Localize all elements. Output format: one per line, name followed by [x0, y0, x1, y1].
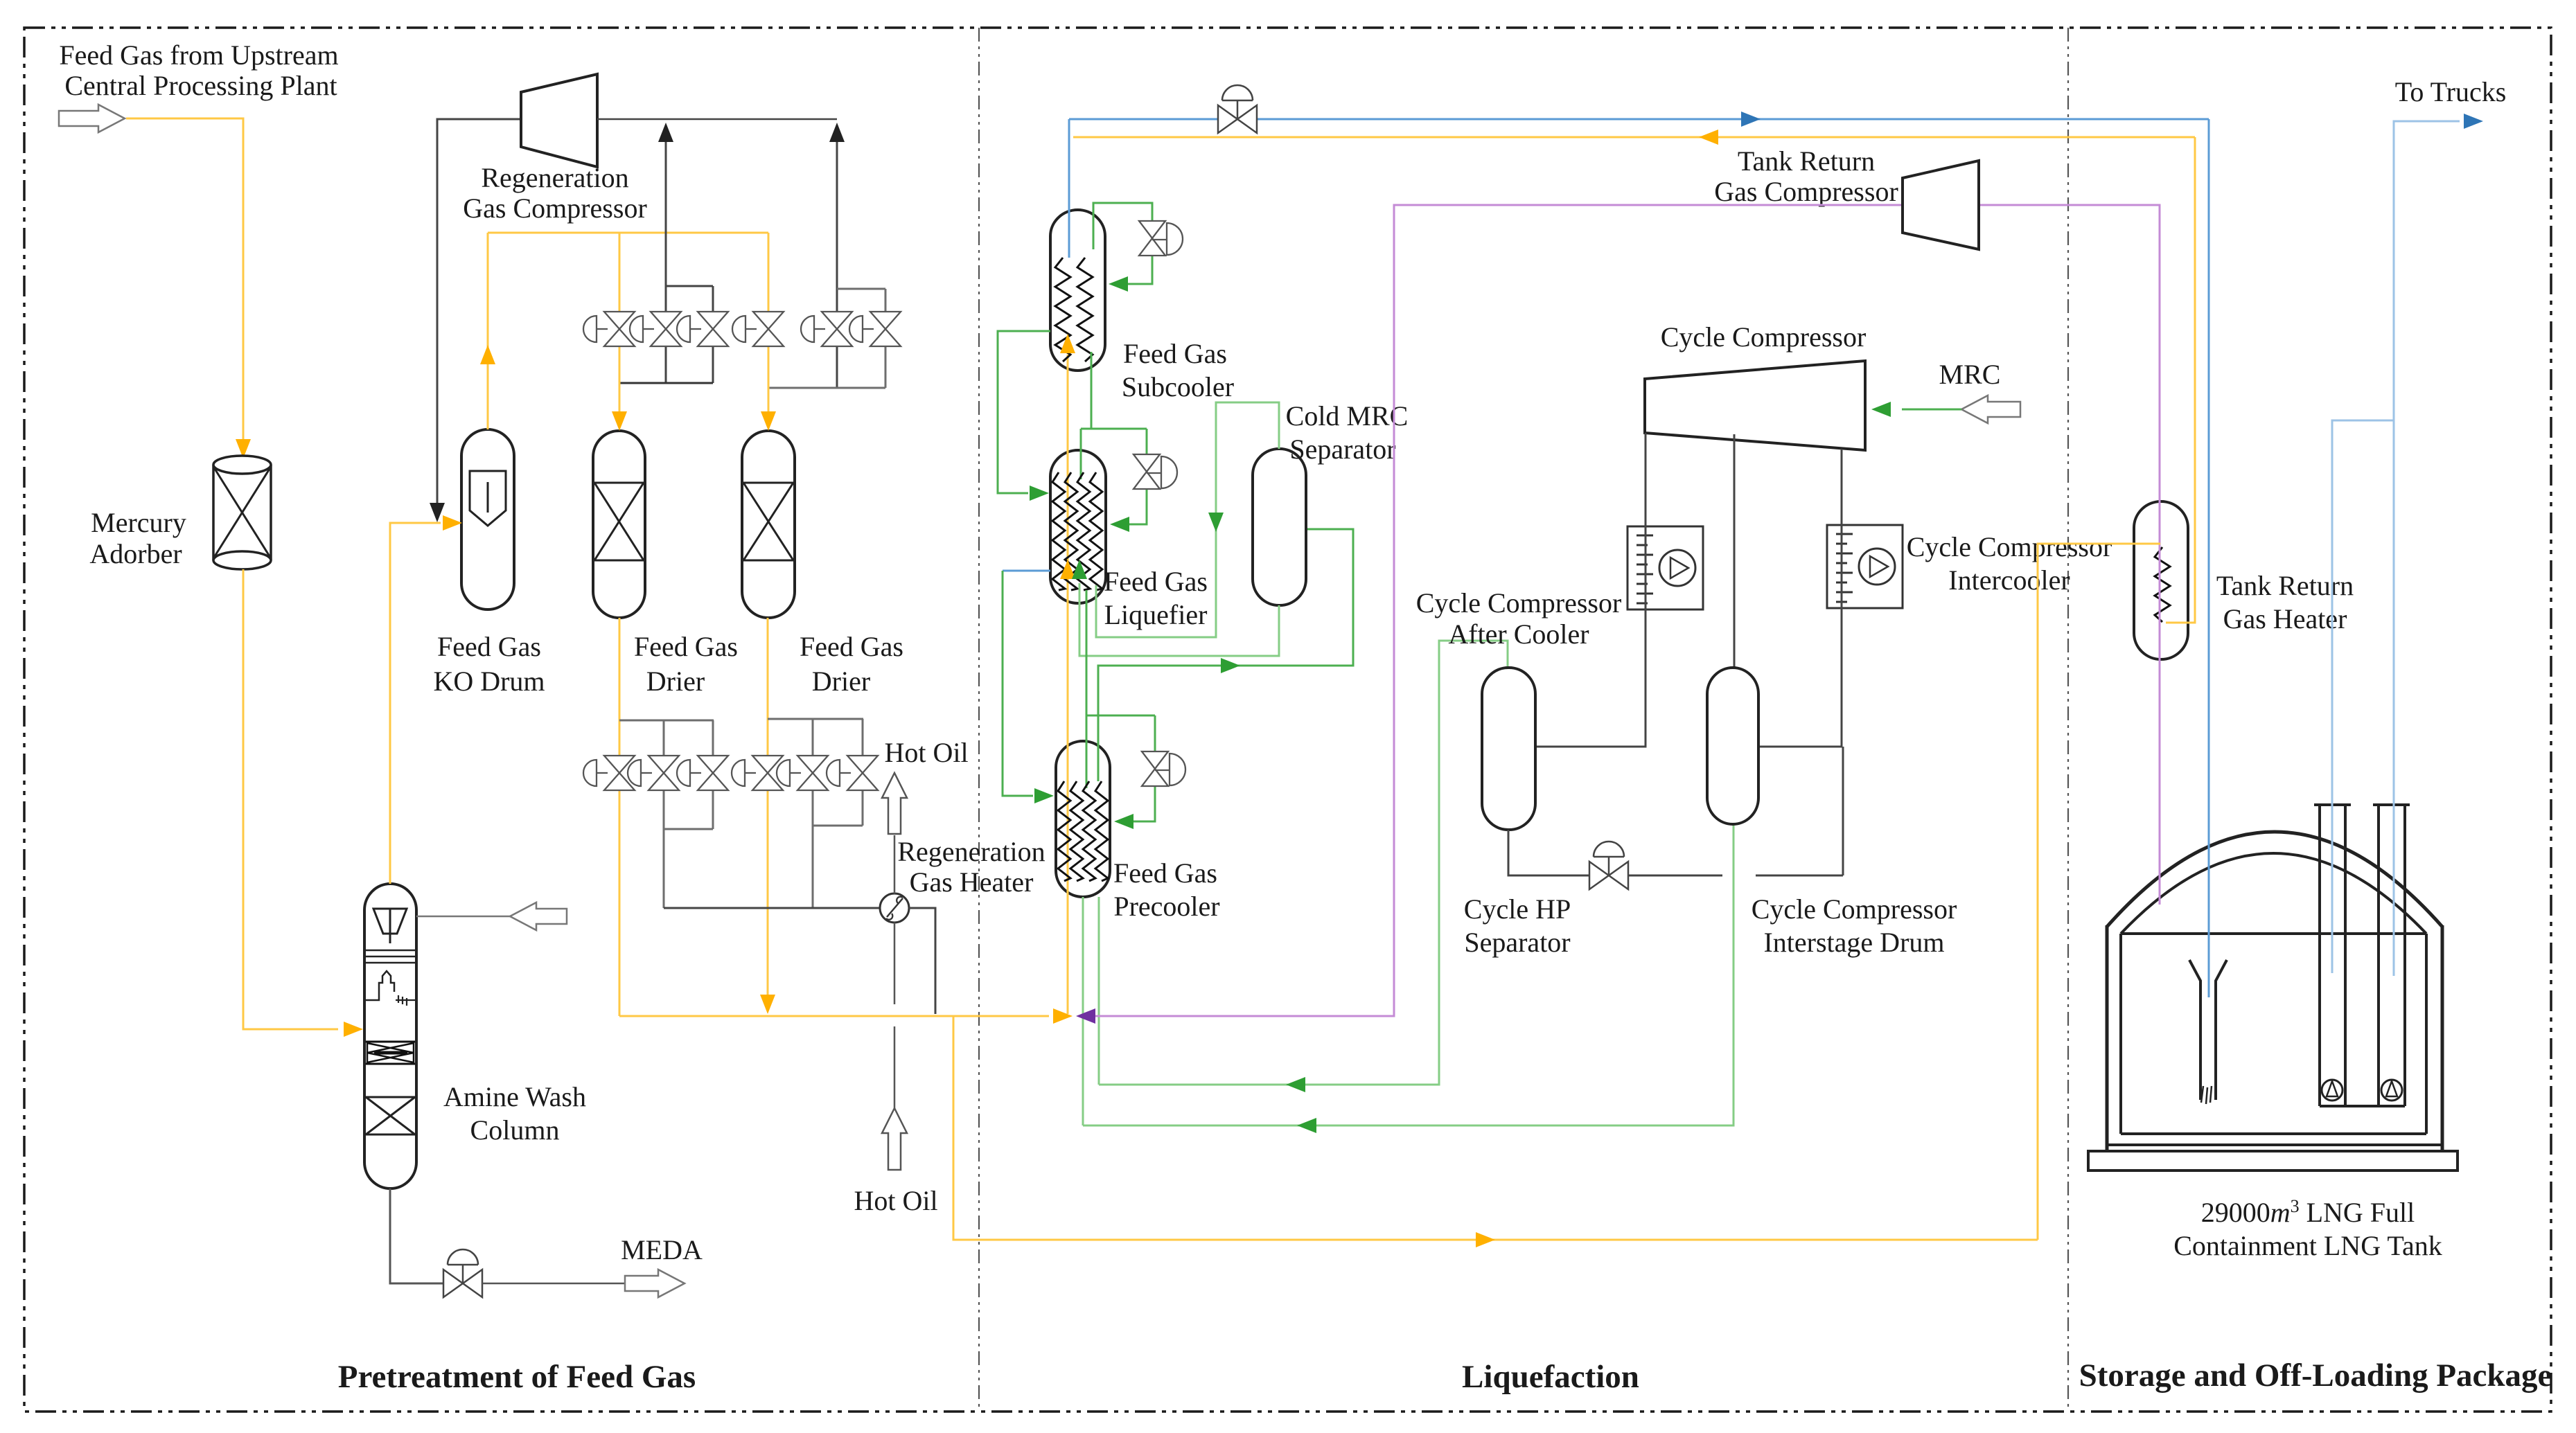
wire: regen gas to heater coil (yellow)	[2038, 544, 2160, 1240]
wire: compressor suction header (black)	[597, 118, 837, 121]
wire: heated return gas riser (yellow)	[2166, 137, 2195, 623]
svg-text:Adorber: Adorber	[89, 538, 182, 569]
hot oil supply hollow arrow	[882, 1108, 907, 1170]
wire: separator vapor to liquefier coil (light green) with down arrow	[1096, 402, 1279, 637]
wire: HP separator bottoms through letdown valve	[1508, 830, 1589, 875]
wire: MRC makeup to cycle compressor (green)	[1902, 409, 1961, 411]
svg-text:After Cooler: After Cooler	[1448, 618, 1589, 650]
svg-text:Hot Oil: Hot Oil	[884, 737, 968, 768]
wire: tank boil-off to compressor (purple)	[1980, 205, 2160, 905]
wire: feed gas to mercury adsorber (yellow)	[126, 118, 243, 440]
wire: column bottoms to MEDA valve	[390, 1189, 443, 1283]
section divider 2	[2067, 28, 2069, 1412]
wire: drier 1 bottom (yellow)	[619, 618, 621, 1016]
wire: interstage drum return to precooler (light green)	[1083, 824, 1733, 1125]
wire: subcooler to liquefier cascade (green)	[1091, 352, 1093, 429]
svg-text:Subcooler: Subcooler	[1122, 371, 1234, 402]
MEDA outlet hollow arrow	[625, 1270, 685, 1297]
svg-text:Feed Gas from Upstream: Feed Gas from Upstream	[59, 39, 338, 71]
valve: precooler JT valve	[1142, 751, 1168, 769]
svg-text:Column: Column	[470, 1114, 560, 1146]
svg-text:Gas Compressor: Gas Compressor	[1714, 176, 1898, 207]
svg-text:Liquefier: Liquefier	[1104, 599, 1208, 630]
wire: LNG rundown into tank (blue)	[2208, 119, 2210, 997]
svg-text:Liquefaction: Liquefaction	[1462, 1359, 1639, 1395]
wire: adsorber to amine wash column (yellow)	[243, 569, 338, 1029]
valve: HP separator letdown (dome actuator)	[1589, 862, 1609, 889]
wire: feed gas riser through exchangers (yellow)	[1067, 355, 1069, 1014]
svg-text:Cycle Compressor: Cycle Compressor	[1752, 893, 1957, 925]
column internal: packing bowties	[366, 1041, 415, 1043]
compressor: Tank Return Gas Compressor	[1903, 161, 1979, 249]
vessel: Feed Gas Precooler	[1056, 741, 1110, 897]
tank: 29000m3 LNG Full Containment Tank	[2088, 805, 2458, 1171]
svg-text:Feed Gas: Feed Gas	[1123, 338, 1227, 369]
svg-text:KO Drum: KO Drum	[433, 666, 545, 697]
valve: liquefier JT valve	[1133, 454, 1160, 472]
wire: LNG from liquefier left (blue) then down to precooler (green)	[1003, 570, 1050, 572]
column internal: distributor	[373, 909, 407, 934]
liquefier coils	[1052, 472, 1065, 590]
wire: compressor discharge through after cooler to HP separator	[1537, 433, 1646, 747]
wire: regen gas branch to tank return heater (yellow)	[953, 1016, 2038, 1240]
wire: regen gas to heater (black)	[664, 907, 880, 909]
svg-text:Gas Compressor: Gas Compressor	[463, 193, 647, 224]
svg-text:Drier: Drier	[646, 666, 705, 697]
svg-text:Intercooler: Intercooler	[1948, 564, 2070, 596]
wire: compressor interstage through intercooler to drum	[1760, 449, 1842, 747]
wire: HP sep vapor return to precooler (light green)	[1099, 641, 1508, 1085]
svg-text:Separator: Separator	[1289, 434, 1395, 465]
compressor: Regeneration Gas Compressor	[521, 74, 597, 167]
wire: liquefier to precooler cascade (green)	[1086, 590, 1088, 788]
svg-text:Pretreatment of Feed Gas: Pretreatment of Feed Gas	[338, 1359, 696, 1395]
vessel: Mercury Adsorber	[213, 456, 271, 569]
cooler: Cycle Compressor Intercooler (fan box)	[1827, 525, 1903, 608]
wire: upper bypass left	[666, 285, 713, 287]
svg-text:Tank Return: Tank Return	[1738, 145, 1875, 177]
wire: subcooler shell outlet to liquefier shell (green)	[998, 331, 1050, 493]
svg-text:Regeneration: Regeneration	[481, 162, 628, 193]
KO drum internal: inlet device	[470, 471, 506, 526]
wire: subcooler JT loop (green)	[1093, 203, 1152, 249]
wire: lower manifold left (gray)	[619, 720, 714, 722]
svg-text:Feed Gas: Feed Gas	[1104, 566, 1208, 597]
wire: valve to MEDA arrow	[482, 1283, 625, 1285]
wire: hot oil supply	[894, 923, 896, 1004]
vessel: Cycle Compressor Interstage Drum	[1707, 668, 1758, 824]
wire: drier 2 bottom (yellow) with arrow	[767, 618, 769, 996]
svg-text:Gas Heater: Gas Heater	[2223, 603, 2347, 634]
cooler: Cycle Compressor After Cooler (fan box)	[1627, 526, 1703, 609]
subcooler coils	[1055, 258, 1070, 362]
svg-text:MRC: MRC	[1939, 359, 2001, 390]
wire: precooler coil to separator (green)	[1098, 529, 1353, 781]
svg-text:Cycle Compressor: Cycle Compressor	[1907, 531, 2112, 562]
valve: subcooler JT valve	[1139, 221, 1165, 238]
column internal: chimney tray	[366, 971, 394, 1000]
wire: column overhead to KO drum (yellow)	[390, 523, 441, 884]
heat exchanger: Regeneration Gas Heater	[880, 893, 909, 923]
wire: upper tee left (black)	[619, 382, 713, 384]
svg-text:Separator: Separator	[1464, 927, 1570, 958]
valve: LNG rundown valve with dome actuator	[1218, 105, 1237, 133]
wire: regen riser drier 1 (black)	[665, 142, 667, 311]
svg-text:Cycle HP: Cycle HP	[1464, 893, 1571, 925]
wire: compressor discharge to feed junction (purple)	[1095, 205, 1901, 1016]
svg-text:Regeneration: Regeneration	[897, 836, 1045, 867]
vessel: Cycle HP Separator	[1482, 668, 1535, 830]
svg-text:Drier: Drier	[812, 666, 870, 697]
svg-text:Feed Gas: Feed Gas	[634, 631, 738, 662]
svg-text:Cycle Compressor: Cycle Compressor	[1661, 321, 1867, 353]
svg-text:Storage and Off-Loading Packag: Storage and Off-Loading Package	[2079, 1358, 2552, 1394]
wire: KO drum overhead riser (yellow)	[487, 233, 489, 429]
svg-text:Interstage Drum: Interstage Drum	[1763, 927, 1944, 958]
vessel: Cold MRC Separator	[1253, 449, 1306, 605]
wire: lower manifold right (gray)	[768, 718, 863, 720]
wire: drier 2 inlet (yellow)	[768, 233, 770, 413]
svg-text:29000m3 LNG Full: 29000m3 LNG Full	[2201, 1196, 2415, 1228]
hot oil return hollow arrow	[882, 773, 907, 834]
svg-text:Mercury: Mercury	[91, 507, 186, 538]
wire: regen gas return (black) with down arrow	[437, 119, 521, 503]
compressor: Cycle Compressor	[1645, 361, 1865, 450]
svg-text:Containment LNG Tank: Containment LNG Tank	[2173, 1230, 2442, 1261]
wire: drier feed header (yellow)	[488, 232, 768, 234]
heater coil	[2155, 547, 2170, 622]
svg-text:Gas Heater: Gas Heater	[910, 866, 1034, 898]
wire: upper tee right (gray)	[768, 387, 885, 389]
vessel: Tank Return Gas Heater	[2134, 501, 2188, 659]
svg-text:Feed Gas: Feed Gas	[437, 631, 541, 662]
wire: hot oil return	[894, 835, 896, 893]
wire: blue into subcooler	[1068, 119, 1070, 258]
wire: compressor suction from interstage drum	[1733, 434, 1736, 668]
vessel: Amine Wash Column	[364, 884, 416, 1189]
svg-text:Hot Oil: Hot Oil	[854, 1185, 937, 1216]
svg-text:Feed Gas: Feed Gas	[1113, 857, 1217, 889]
section divider 1	[978, 28, 980, 1412]
wire: tank return heated gas (yellow, top)	[1073, 136, 2195, 139]
column internal: packing X box	[366, 1134, 415, 1136]
svg-text:Precooler: Precooler	[1113, 891, 1219, 922]
valves: drier outlet/regen manifold lower row	[604, 756, 635, 773]
column internal: trays	[366, 950, 415, 952]
wire: heater outlet joins feed line	[909, 908, 935, 1014]
svg-text:Central Processing Plant: Central Processing Plant	[64, 70, 337, 101]
precooler coils	[1058, 781, 1070, 881]
wire: lean amine inlet (gray)	[416, 916, 510, 918]
svg-text:Amine Wash: Amine Wash	[443, 1081, 586, 1112]
MRC makeup hollow arrow	[1961, 395, 2020, 423]
vessel: Feed Gas Subcooler	[1050, 210, 1105, 371]
svg-text:Cold MRC: Cold MRC	[1286, 400, 1409, 431]
feed gas inlet hollow arrow	[59, 105, 125, 132]
vessel: Feed Gas Drier 1	[593, 431, 645, 618]
svg-text:MEDA: MEDA	[621, 1234, 703, 1265]
wire: LNG rundown line (blue, top)	[1069, 118, 2209, 121]
wire: drier 1 inlet (yellow)	[619, 233, 621, 413]
valves: drier inlet/regen manifold upper row	[604, 312, 635, 329]
wire: separator bottoms to liquefier (light green) with up arrow	[1079, 583, 1279, 656]
svg-text:To Trucks: To Trucks	[2395, 76, 2507, 107]
vessel: Feed Gas KO Drum	[461, 429, 514, 609]
svg-text:Cycle Compressor: Cycle Compressor	[1416, 587, 1622, 618]
wire: regen riser drier 2 (black)	[836, 142, 838, 311]
lean amine hollow arrow	[510, 902, 567, 930]
vessel: Feed Gas Liquefier	[1050, 450, 1106, 603]
vessel: Feed Gas Drier 2	[742, 431, 795, 618]
wire: feed gas header to liquefaction (yellow)	[619, 1015, 1049, 1017]
svg-text:Feed Gas: Feed Gas	[800, 631, 903, 662]
wire: LNG pumps to trucks (light blue)	[2394, 121, 2460, 976]
wire: upper bypass right	[837, 288, 885, 290]
valve: MEDA letdown (with dome actuator)	[443, 1270, 463, 1297]
